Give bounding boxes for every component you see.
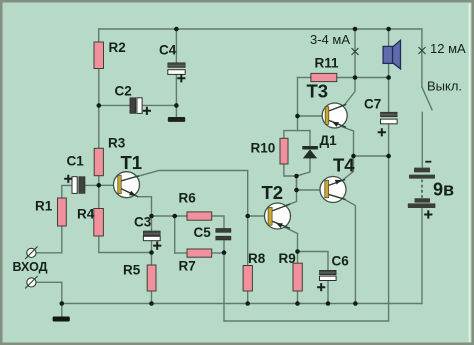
wire top rail [99, 28, 422, 30]
wire R11 left [298, 77, 311, 79]
wire bottom rail [62, 303, 422, 305]
ground under C4 [168, 117, 185, 122]
wire T3 collector up [329, 78, 355, 111]
capacitor C7 [364, 96, 397, 136]
resistor R4 [77, 206, 103, 236]
junction ground rail [60, 301, 65, 306]
input jack upper [25, 247, 37, 259]
svg-text:9в: 9в [433, 180, 454, 200]
junction T1 base node [97, 183, 102, 188]
wire C1 right to node base [85, 184, 99, 186]
junction R2/R3/C2 [97, 103, 102, 108]
wire ground stub [61, 304, 63, 317]
transistor T3 [307, 80, 348, 128]
wire R2 top [98, 29, 100, 42]
junction R10/D1 bottom [294, 174, 299, 179]
svg-text:R3: R3 [108, 135, 126, 150]
wire R6 right to C5 [212, 216, 224, 229]
wire R1 bottom to input jack [36, 226, 62, 253]
svg-text:C3: C3 [134, 214, 152, 229]
svg-text:R6: R6 [179, 190, 197, 205]
junction C6 rail [326, 301, 331, 306]
svg-text:12 мА: 12 мА [430, 41, 466, 56]
junction R7/C5/feedback [222, 250, 227, 255]
wire R6 left to R7 left [174, 216, 176, 253]
wire R9 top [297, 252, 299, 264]
cross mark 3-4 mA [352, 48, 359, 55]
capacitor C3 [134, 214, 161, 249]
wire T3 base [298, 115, 326, 117]
wire C5 bottom to R7 right node [223, 240, 225, 253]
svg-text:R8: R8 [248, 251, 266, 266]
ground bottom left [53, 317, 70, 322]
battery 9V [408, 162, 454, 219]
junction R6/R7 left [172, 214, 177, 219]
wire R5 bottom [151, 291, 153, 304]
wire T3 emitter down to T4 emitter [329, 121, 354, 181]
svg-text:Д1: Д1 [320, 133, 338, 148]
svg-text:R10: R10 [251, 140, 276, 155]
resistor R9 [279, 251, 303, 291]
junction speaker top rail [386, 27, 391, 32]
wire T4 emitter inner [329, 181, 342, 186]
svg-text:R4: R4 [77, 206, 95, 221]
junction R9 rail [295, 301, 300, 306]
svg-text:R9: R9 [279, 251, 296, 266]
resistor R6 [179, 190, 212, 220]
junction T3 collector/R11 [353, 75, 358, 80]
svg-text:Выкл.: Выкл. [427, 79, 462, 94]
wire R8 bottom [247, 291, 249, 304]
svg-text:R7: R7 [179, 258, 196, 273]
wire R8 top [247, 216, 249, 266]
input jack lower [25, 276, 37, 288]
svg-text:Т1: Т1 [121, 152, 143, 173]
junction T2 emitter/R9/C6 [295, 249, 300, 254]
wire C6 bottom [327, 281, 329, 304]
junction T2 collector/T4 base [294, 188, 299, 193]
wire D1 top [309, 131, 311, 146]
wire speaker column [388, 29, 390, 78]
wire R3 bottom to node base T1 [98, 176, 100, 209]
wire R7 left [175, 252, 187, 254]
svg-text:C1: C1 [67, 153, 85, 168]
wire R9 bottom [297, 291, 299, 304]
resistor R2 [94, 40, 126, 69]
junction R8 rail [245, 301, 250, 306]
junction T2 base/R8 [245, 214, 250, 219]
junction T4 collector rail [353, 301, 358, 306]
svg-text:C6: C6 [332, 253, 350, 268]
resistor R1 [35, 198, 66, 226]
wire R2 bottom to R3 top [98, 69, 100, 149]
svg-text:R1: R1 [35, 198, 53, 213]
svg-text:3-4 мА: 3-4 мА [310, 32, 350, 47]
wire C2 right to C4 node [142, 104, 176, 106]
resistor R10 [251, 138, 289, 164]
wire T2 emitter down [272, 221, 298, 251]
junction emitters T3/T4 [351, 154, 356, 159]
wire switch to battery [421, 112, 423, 167]
resistor R7 [179, 249, 212, 273]
wire C4 top [175, 29, 177, 63]
resistor R5 [123, 262, 156, 291]
wire R10 top [284, 131, 310, 139]
svg-text:R5: R5 [123, 262, 141, 277]
junction C7 bottom [386, 154, 391, 159]
wire D1 bottom to node [297, 158, 311, 176]
svg-text:Т4: Т4 [333, 155, 355, 176]
wire input lower jack to bottom rail [36, 282, 62, 303]
svg-text:C2: C2 [115, 83, 132, 98]
wire C4 bottom to ground [175, 74, 177, 117]
wire C1 left to R1 top [62, 185, 72, 198]
wire node 176 to node 190 [296, 176, 298, 190]
wire C7 top [388, 78, 390, 113]
wire C7 bottom [388, 124, 390, 156]
capacitor C5 [194, 225, 231, 240]
wire right rail top [421, 29, 423, 87]
wire T4 base [297, 189, 325, 191]
wire T1 collector to T2 base column [121, 171, 248, 217]
svg-text:R2: R2 [109, 40, 126, 55]
junction speaker bottom [386, 75, 391, 80]
resistor R8 [243, 251, 266, 291]
resistor R3 [94, 135, 126, 175]
diode D1 [302, 133, 337, 159]
svg-text:ВХОД: ВХОД [13, 260, 48, 274]
wire feedback from R7 node to C7 bottom [224, 156, 389, 321]
wire C3 bottom stub [151, 241, 153, 253]
wire battery bottom [421, 208, 423, 304]
wire emitters node to C7 column [354, 155, 389, 157]
wire T1 emitter to C3 column [138, 197, 152, 216]
junction measuring branch top rail [353, 27, 358, 32]
wire T4 collector down [329, 195, 356, 304]
svg-text:C4: C4 [159, 42, 177, 57]
svg-text:Т2: Т2 [262, 182, 284, 203]
wire R10 bottom to node [284, 164, 297, 176]
capacitor C6 [317, 253, 349, 291]
wire node to speaker bottom [355, 77, 389, 79]
svg-text:C7: C7 [364, 96, 381, 111]
wire T2 base [248, 215, 268, 217]
junction T1 emitter/C3/R6 [149, 214, 154, 219]
speaker [383, 40, 400, 69]
wire R11 left down to R10/D1 [297, 78, 299, 131]
transistor T2 [262, 182, 291, 229]
wire node emitter T2 to C6 [298, 252, 329, 271]
junction R5 rail [149, 301, 154, 306]
junction C2/C4/ground [174, 103, 179, 108]
resistor R11 [311, 55, 339, 81]
wire R4 bottom to node C3/R5 [99, 236, 152, 253]
wire node A to C2 left [99, 104, 130, 106]
capacitor C1 [64, 153, 85, 193]
svg-text:R11: R11 [315, 55, 340, 70]
wire T2 collector up [272, 176, 297, 211]
cross mark 12 mA [419, 47, 426, 54]
transistor T4 [320, 155, 355, 203]
svg-text:Т3: Т3 [307, 80, 329, 101]
wire node to R5 top [151, 253, 153, 266]
transistor T1 [114, 152, 143, 198]
wire node C3 top to R6 left [152, 215, 188, 217]
svg-text:C5: C5 [194, 225, 212, 240]
wire T1 base [99, 184, 118, 186]
wire R11 right [337, 77, 355, 79]
wire switch blade [422, 87, 432, 110]
junction C4 top rail [174, 27, 179, 32]
junction T3 base node [295, 114, 300, 119]
capacitor C2 [115, 83, 152, 115]
wire measuring branch 3-4 mA [354, 29, 356, 78]
wire R7 right [212, 252, 224, 254]
junction C3/R4/R5 [149, 250, 154, 255]
capacitor C4 [159, 42, 185, 82]
wire C3 top stub [151, 216, 153, 231]
